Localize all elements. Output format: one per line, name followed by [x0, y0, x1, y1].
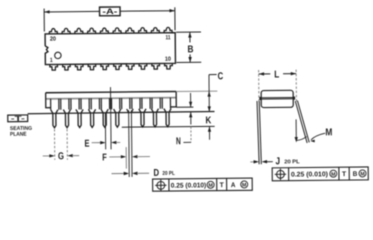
svg-text:20 PL: 20 PL — [284, 159, 300, 165]
svg-text:M: M — [242, 183, 246, 189]
lead tip line — [122, 125, 215, 128]
side view lead shoulder 8 — [121, 98, 123, 109]
end view parting line — [260, 96, 295, 98]
top view upper pin bump 12 — [151, 28, 159, 33]
svg-text:B: B — [353, 171, 358, 178]
side view lead leg 3 — [76, 109, 83, 127]
side view lead shoulder 6 — [100, 98, 102, 109]
top view upper pin bump 11 — [164, 27, 172, 32]
datum T box — [8, 115, 28, 122]
side view body left end — [46, 93, 51, 108]
top view dimension A extension line right — [174, 7, 176, 30]
svg-text:A: A — [231, 182, 236, 189]
datum T seating plane line — [28, 112, 215, 114]
end view right lead centerline — [295, 70, 297, 102]
svg-text:M: M — [208, 183, 212, 189]
side view lead leg 10 — [164, 109, 171, 127]
dimension N leader and label — [190, 127, 192, 143]
package body top view outline with index notch — [45, 33, 175, 65]
svg-text:PLANE: PLANE — [10, 132, 27, 138]
top view lower pin bump 3 — [75, 64, 83, 70]
side view lead leg 8 — [139, 109, 146, 127]
side view lead leg 2 — [63, 110, 70, 128]
side view lead shoulder 1 — [50, 99, 52, 110]
svg-text:B: B — [187, 44, 193, 55]
side view lead shoulder 12 — [161, 98, 163, 109]
top view upper pin bump 15 — [113, 28, 122, 33]
svg-text:C: C — [218, 71, 224, 82]
dimension M leader and label — [311, 133, 325, 140]
side view lead leg 9 — [151, 109, 158, 127]
top view lower pin bump 2 — [63, 64, 71, 70]
package bottom extension line right — [176, 106, 193, 108]
svg-text:0.25 (0.010): 0.25 (0.010) — [291, 171, 328, 178]
svg-text:E: E — [84, 139, 89, 150]
dimension F and D leg 7 side lines — [128, 110, 131, 177]
top view lower pin bump 7 — [126, 64, 134, 70]
dimension B line with arrows — [189, 32, 191, 62]
position tolerance symbol — [157, 181, 165, 189]
svg-text:-T-: -T- — [11, 114, 26, 123]
side view lead leg 6 — [114, 109, 121, 127]
side view body top edge — [46, 91, 176, 92]
top view upper pin bump 14 — [126, 28, 134, 33]
top view upper pin bump 13 — [138, 28, 146, 33]
dimension L line with arrows — [259, 73, 271, 75]
dimension B extension line top — [176, 31, 201, 33]
dimension A label box — [100, 7, 121, 16]
end view left lead centerline — [258, 70, 260, 103]
svg-text:M: M — [360, 171, 364, 177]
side view lead leg 7 funnel — [127, 109, 134, 113]
side view lead leg 5 — [101, 109, 108, 127]
top view lower pin bump 4 — [88, 64, 96, 70]
side view lead shoulder 5 — [90, 98, 92, 109]
dimension C arrows — [208, 75, 210, 112]
side view lead shoulder 10 — [141, 98, 143, 109]
dimension B extension line bottom — [176, 61, 201, 63]
side view lead shoulder 9 — [131, 98, 133, 109]
svg-text:G: G — [58, 151, 64, 162]
svg-text:N: N — [176, 136, 181, 147]
dimension E leg 5 centerline — [104, 113, 106, 149]
svg-text:D: D — [153, 168, 159, 179]
top view lower pin bump 5 — [101, 64, 109, 70]
dimension G arrows and label — [43, 155, 50, 157]
pin 1 index circle — [55, 52, 61, 58]
top view lower pin bump 1 — [50, 64, 58, 70]
dimension E arrows and label — [92, 142, 101, 144]
dimension N lower arrow — [190, 112, 192, 124]
dimension D arrows and label — [112, 173, 125, 175]
svg-text:11: 11 — [165, 35, 171, 41]
feature control frame for datum A — [153, 178, 253, 191]
side view lead leg 1 — [51, 110, 58, 128]
side view lead shoulder 7 — [110, 98, 112, 109]
svg-text:0.25 (0.010): 0.25 (0.010) — [171, 182, 207, 189]
side view lead shoulder 11 — [151, 98, 153, 109]
body top extension line right — [176, 90, 217, 92]
end view left lead — [257, 101, 259, 164]
svg-text:K: K — [205, 115, 212, 126]
svg-text:20: 20 — [50, 37, 57, 43]
feature control frame for datum B — [272, 167, 368, 181]
dimension J arrows — [250, 161, 254, 163]
svg-text:J: J — [275, 156, 280, 167]
position tolerance symbol — [276, 170, 284, 178]
top view upper pin bump 17 — [87, 28, 96, 33]
dimension A line with arrows — [44, 10, 99, 13]
svg-text:L: L — [274, 69, 279, 80]
dimension G centerlines — [53, 129, 55, 160]
svg-text:F: F — [102, 152, 107, 163]
svg-text:M: M — [325, 127, 332, 138]
dimension C bracket and label — [209, 74, 217, 76]
top view dimension A extension line left — [43, 9, 45, 32]
side view lead shoulder 3 — [70, 99, 72, 110]
top view lower pin bump 10 — [165, 63, 173, 69]
svg-text:10: 10 — [165, 57, 172, 63]
svg-text:20 PL: 20 PL — [162, 171, 175, 177]
svg-text:-A-: -A- — [102, 7, 117, 16]
side view lead leg 4 — [88, 109, 95, 127]
dimension F shoulder reference line — [125, 147, 127, 168]
dimension M reference line with arrow — [295, 119, 297, 139]
top view lower pin bump 9 — [152, 63, 160, 69]
top view upper pin bump 16 — [100, 28, 108, 33]
side view lead shoulder 4 — [80, 99, 82, 110]
top view upper pin bump 20 — [49, 29, 57, 34]
side view body parting line — [46, 98, 176, 99]
top view upper pin bump 19 — [62, 28, 71, 33]
top view lower pin bump 6 — [114, 64, 122, 70]
svg-text:M: M — [331, 172, 335, 178]
top view lower pin bump 8 — [139, 64, 147, 70]
dimension B label — [186, 42, 194, 54]
dimension M angle arc — [296, 137, 306, 141]
end view right lead — [295, 101, 307, 143]
side view package centerline extended for dimension E — [109, 87, 112, 149]
side view body right end — [171, 91, 176, 106]
dimension N upper arrow — [190, 93, 192, 107]
side view lead shoulder 2 — [60, 99, 62, 110]
top view upper pin bump 18 — [75, 28, 83, 33]
end view package body — [261, 90, 293, 107]
dimension K lower arrow — [208, 126, 210, 139]
